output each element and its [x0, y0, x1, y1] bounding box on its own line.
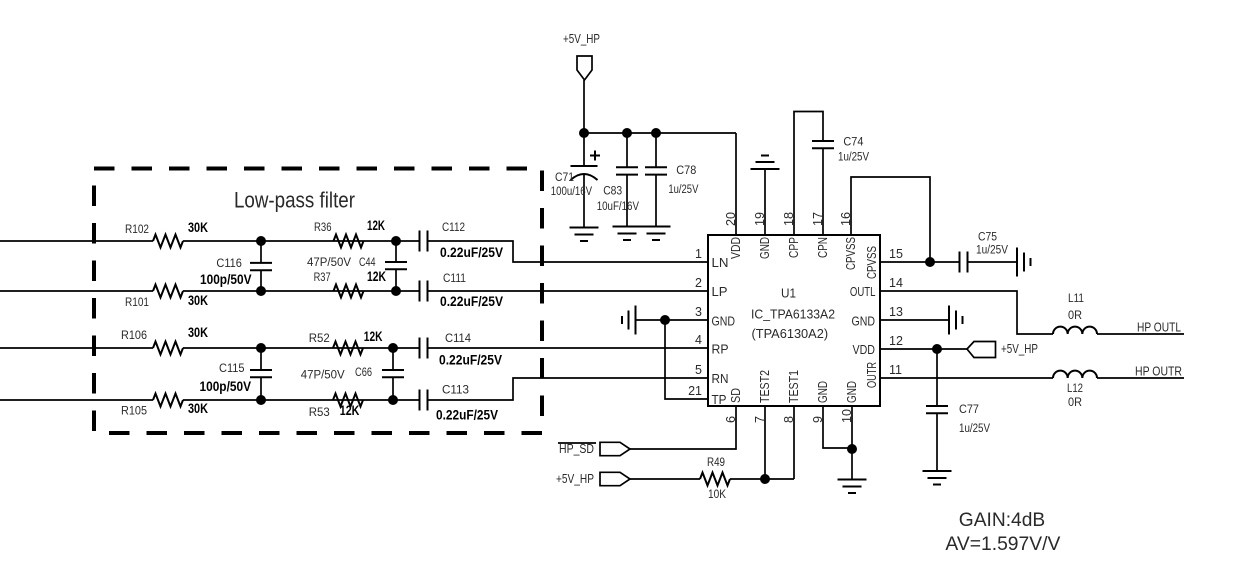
capacitor C66 — [392, 348, 394, 370]
wire junction down to pin21 TP — [665, 320, 708, 399]
power flag +5V_HP bottom — [600, 472, 630, 485]
node junction C115 bottom — [256, 395, 266, 405]
node junction pin12 C77 — [932, 344, 942, 354]
svg-text:GND: GND — [852, 315, 876, 329]
svg-text:0R: 0R — [1068, 308, 1082, 322]
resistor R36 — [334, 235, 364, 248]
svg-text:C115: C115 — [219, 361, 245, 375]
svg-text:R53: R53 — [309, 405, 330, 419]
wire R49 to TEST pins — [730, 478, 794, 480]
power symbol +5V_HP top — [577, 56, 592, 80]
svg-text:+5V_HP: +5V_HP — [556, 472, 594, 486]
node junction C44 bottom — [391, 286, 401, 296]
svg-text:C74: C74 — [843, 134, 863, 148]
wire ground to pin3 GND — [636, 319, 709, 321]
wire HP_SD to pin6 SD — [630, 406, 736, 449]
svg-text:47P/50V: 47P/50V — [301, 368, 346, 382]
svg-text:HP OUTL: HP OUTL — [1137, 321, 1181, 335]
node junction bus C78 — [651, 128, 661, 138]
ground pin10 — [838, 480, 867, 494]
svg-text:100p/50V: 100p/50V — [200, 378, 252, 394]
svg-text:HP_SD: HP_SD — [559, 442, 594, 456]
net flag HP_SD — [600, 442, 630, 455]
wire pin8 TEST1 down — [793, 406, 795, 479]
svg-text:GND: GND — [816, 381, 830, 403]
svg-text:0.22uF/25V: 0.22uF/25V — [440, 293, 504, 309]
wire pin12 VDD to flag — [880, 348, 967, 350]
svg-text:1u/25V: 1u/25V — [838, 150, 870, 164]
svg-text:CPVSS: CPVSS — [865, 246, 879, 279]
wire pin14 OUTL to L11 — [880, 291, 1053, 334]
svg-text:C78: C78 — [676, 163, 696, 177]
svg-text:L11: L11 — [1068, 291, 1084, 305]
svg-text:C112: C112 — [442, 220, 465, 234]
node junction C44 top — [391, 236, 401, 246]
svg-text:C44: C44 — [359, 255, 376, 269]
svg-text:C66: C66 — [355, 365, 372, 379]
ground C77 — [923, 471, 952, 485]
wire pin10 GND to ground — [851, 406, 853, 480]
svg-text:AV=1.597V/V: AV=1.597V/V — [945, 533, 1060, 555]
wire R101 to C111 — [183, 290, 419, 292]
capacitor C44 — [395, 241, 397, 262]
ground sideways C75 — [1017, 248, 1031, 277]
svg-text:LN: LN — [712, 256, 729, 270]
svg-text:20: 20 — [724, 212, 738, 226]
svg-text:30K: 30K — [188, 292, 208, 308]
node junction C116 top — [256, 236, 266, 246]
node junction bus C83 — [622, 128, 632, 138]
svg-text:VDD: VDD — [853, 343, 876, 357]
svg-text:IC_TPA6133A2: IC_TPA6133A2 — [751, 306, 835, 321]
svg-text:12K: 12K — [340, 402, 360, 418]
svg-text:0.22uF/25V: 0.22uF/25V — [436, 407, 499, 423]
svg-text:R105: R105 — [121, 404, 147, 418]
svg-text:RN: RN — [712, 372, 729, 386]
svg-text:1u/25V: 1u/25V — [959, 421, 991, 435]
resistor R49 — [700, 473, 730, 486]
wire C113 to pin5 RN with jog up — [428, 378, 709, 400]
svg-text:(TPA6130A2): (TPA6130A2) — [752, 326, 829, 341]
svg-text:12: 12 — [889, 334, 903, 348]
wire R102 to C112 — [183, 240, 419, 242]
svg-text:TEST2: TEST2 — [758, 370, 772, 403]
capacitor C115 — [260, 348, 262, 370]
capacitor C112 — [420, 231, 428, 252]
svg-text:C71: C71 — [555, 170, 574, 184]
svg-text:21: 21 — [688, 384, 702, 398]
svg-text:R102: R102 — [125, 222, 149, 236]
wire input left channel top to R102 — [0, 240, 153, 242]
resistor R53 — [333, 394, 363, 407]
svg-text:1u/25V: 1u/25V — [668, 182, 699, 196]
svg-text:1u/25V: 1u/25V — [976, 243, 1009, 257]
svg-text:C77: C77 — [959, 402, 979, 416]
svg-text:12K: 12K — [367, 217, 385, 233]
svg-text:OUTR: OUTR — [865, 362, 879, 388]
svg-text:R101: R101 — [125, 295, 149, 309]
svg-text:16: 16 — [839, 212, 853, 226]
wire pin7 TEST2 down — [764, 406, 766, 479]
svg-text:CPP: CPP — [787, 237, 801, 258]
ground sideways pin13 — [949, 306, 963, 335]
wire flag to R49 — [630, 478, 700, 480]
svg-text:18: 18 — [782, 212, 796, 226]
wire C75 to ground — [968, 261, 1018, 263]
inductor L11 — [1053, 327, 1097, 334]
capacitor C114 — [420, 338, 428, 359]
capacitor C113 — [420, 390, 428, 411]
svg-text:0.22uF/25V: 0.22uF/25V — [439, 352, 503, 368]
ground C71 — [570, 228, 599, 242]
capacitor C75 — [960, 252, 968, 273]
resistor R102 — [153, 235, 183, 248]
node junction pin3 TP — [660, 315, 670, 325]
svg-text:4: 4 — [695, 333, 702, 347]
wire pin13 GND to ground — [880, 319, 949, 321]
resistor R37 — [334, 285, 364, 298]
svg-text:3: 3 — [695, 305, 702, 319]
svg-text:R36: R36 — [314, 220, 332, 234]
wire +5V_HP to VDD bus — [583, 80, 585, 133]
svg-text:R52: R52 — [309, 331, 330, 345]
svg-text:19: 19 — [753, 212, 767, 226]
wire R105 to C113 — [183, 399, 419, 401]
power flag +5V_HP right — [967, 342, 996, 358]
svg-text:0.22uF/25V: 0.22uF/25V — [440, 244, 504, 260]
svg-text:12K: 12K — [367, 268, 386, 284]
node junction C66 top — [388, 343, 398, 353]
svg-text:LP: LP — [712, 285, 728, 299]
svg-text:17: 17 — [811, 212, 825, 226]
wire CPVSS pin16 loop to pin15 — [851, 177, 930, 262]
capacitor C71 polarized — [583, 133, 585, 166]
svg-text:GND: GND — [845, 381, 859, 403]
svg-text:30K: 30K — [188, 400, 208, 416]
svg-text:R106: R106 — [121, 328, 147, 342]
capacitor C111 — [420, 281, 428, 302]
wire pin11 OUTR to L12 — [880, 377, 1053, 379]
wire C111 to pin2 LP — [428, 290, 709, 292]
svg-text:C111: C111 — [443, 271, 466, 285]
svg-text:C75: C75 — [978, 230, 997, 244]
resistor R52 — [333, 342, 363, 355]
wire C112 to pin1 LN with jog down — [428, 241, 709, 262]
svg-text:30K: 30K — [188, 219, 208, 235]
svg-text:30K: 30K — [188, 324, 208, 340]
ground sideways pin3 — [622, 306, 636, 335]
capacitor C77 — [936, 349, 938, 406]
svg-text:10uF/16V: 10uF/16V — [597, 199, 640, 213]
svg-text:12K: 12K — [364, 328, 383, 344]
svg-text:GND: GND — [712, 315, 736, 329]
svg-text:2: 2 — [695, 276, 702, 290]
ground C83 — [613, 227, 642, 241]
capacitor C83 — [626, 133, 628, 167]
node junction C66 bottom — [388, 395, 398, 405]
capacitor C78 — [655, 133, 657, 167]
inductor L12 — [1053, 371, 1097, 378]
svg-text:47P/50V: 47P/50V — [307, 255, 352, 269]
wire CPP pin18 loop — [794, 112, 823, 236]
svg-text:Low-pass filter: Low-pass filter — [234, 188, 355, 213]
svg-text:11: 11 — [889, 363, 902, 377]
svg-text:C116: C116 — [216, 256, 242, 270]
wire input right channel bottom to R105 — [0, 399, 153, 401]
svg-text:10K: 10K — [708, 487, 727, 501]
svg-text:TP: TP — [712, 393, 727, 407]
resistor R101 — [153, 285, 183, 298]
svg-text:GAIN:4dB: GAIN:4dB — [959, 509, 1045, 531]
resistor R105 — [153, 394, 183, 407]
svg-text:R49: R49 — [707, 455, 725, 469]
resistor R106 — [153, 342, 183, 355]
wire pin15 to C75 — [880, 261, 960, 263]
svg-text:+5V_HP: +5V_HP — [563, 32, 600, 46]
wire R106 to C114 — [183, 347, 419, 349]
low-pass filter dashed box — [94, 169, 542, 434]
svg-text:15: 15 — [889, 247, 903, 261]
capacitor C74 — [812, 141, 834, 148]
svg-text:OUTL: OUTL — [850, 285, 876, 299]
wire L12 to HP_OUTR — [1097, 377, 1184, 379]
svg-text:C114: C114 — [445, 331, 471, 345]
node junction C116 bottom — [256, 286, 266, 296]
svg-text:CPVSS: CPVSS — [844, 237, 858, 270]
svg-text:13: 13 — [889, 305, 903, 319]
node junction pin9 pin10 — [847, 444, 857, 454]
svg-text:100p/50V: 100p/50V — [200, 271, 252, 287]
wire pin9 GND jog — [823, 406, 852, 448]
op-amp U1 IC body — [708, 235, 880, 406]
svg-text:C83: C83 — [603, 184, 622, 198]
svg-text:R37: R37 — [314, 270, 331, 284]
capacitor C116 — [260, 241, 262, 263]
node junction TEST2 — [760, 474, 770, 484]
ground flipped pin19 — [764, 169, 766, 235]
svg-text:+5V_HP: +5V_HP — [1001, 342, 1038, 356]
svg-text:14: 14 — [889, 276, 903, 290]
wire input left channel bottom to R101 — [0, 290, 153, 292]
wire L11 to HP_OUTL — [1097, 333, 1184, 335]
wire C114 to pin4 RP — [428, 347, 709, 349]
svg-text:100u/16V: 100u/16V — [551, 184, 593, 198]
svg-text:U1: U1 — [781, 286, 796, 301]
node junction C115 top — [256, 343, 266, 353]
svg-text:HP OUTR: HP OUTR — [1135, 365, 1182, 379]
wire input right channel top to R106 — [0, 347, 153, 349]
wire VDD bus to pin20 — [735, 133, 737, 235]
node junction bus C71 — [579, 128, 589, 138]
svg-text:1: 1 — [695, 247, 702, 261]
svg-text:C113: C113 — [442, 383, 469, 397]
wire VDD bus — [584, 132, 736, 134]
svg-text:SD: SD — [729, 388, 743, 403]
svg-text:TEST1: TEST1 — [787, 370, 801, 403]
ground C78 — [642, 227, 671, 241]
svg-text:L12: L12 — [1067, 381, 1083, 395]
svg-text:0R: 0R — [1068, 395, 1082, 409]
svg-text:GND: GND — [758, 237, 772, 259]
svg-text:RP: RP — [712, 343, 729, 357]
svg-text:VDD: VDD — [729, 237, 743, 259]
svg-text:5: 5 — [695, 363, 702, 377]
svg-text:CPN: CPN — [816, 237, 830, 258]
node junction pin15 CPVSS — [925, 257, 935, 267]
